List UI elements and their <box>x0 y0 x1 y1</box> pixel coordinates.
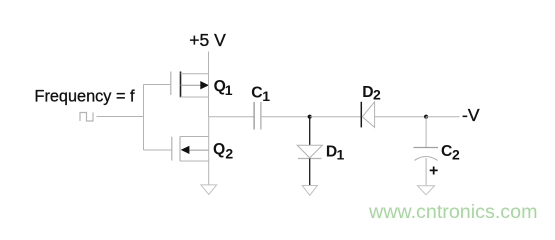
ground below Q2 <box>201 185 217 195</box>
label C1 <box>251 84 270 104</box>
wire node A down to D1 <box>309 117 311 146</box>
transistor Q2 <box>172 137 209 162</box>
label C2 <box>441 143 460 163</box>
svg-text:-V: -V <box>462 105 480 125</box>
label D1 <box>326 144 345 163</box>
label D2 <box>362 84 381 103</box>
wire Q2 vertical to ground <box>208 117 210 185</box>
svg-text:1: 1 <box>262 88 270 104</box>
svg-text:Frequency = f: Frequency = f <box>35 87 135 105</box>
transistor Q1 <box>171 72 209 98</box>
svg-text:www.cntronics.com: www.cntronics.com <box>368 201 537 223</box>
svg-text:1: 1 <box>337 147 345 163</box>
label Q2 <box>213 141 233 161</box>
label Q1 <box>214 78 233 98</box>
wire Q1 drain-source vertical <box>208 74 210 117</box>
wire +5V stub <box>208 52 210 74</box>
wire node B to -V <box>426 116 459 118</box>
node B junction dot <box>424 115 428 119</box>
wire gate bus <box>143 85 145 151</box>
svg-text:2: 2 <box>373 87 381 103</box>
wire D1 to ground <box>309 159 311 186</box>
svg-text:D: D <box>362 84 373 101</box>
svg-text:C: C <box>251 84 262 101</box>
ground below C2 <box>418 186 435 195</box>
diode D1 <box>297 145 322 158</box>
svg-text:+: + <box>429 162 438 179</box>
pulse waveform symbol <box>80 113 93 122</box>
wire node B down to C2 <box>425 117 427 148</box>
capacitor C1 <box>254 102 261 130</box>
ground below D1 <box>302 186 317 196</box>
diode D2 <box>361 102 374 128</box>
wire input <box>97 116 144 118</box>
wire Q2 gate <box>144 149 172 151</box>
wire Q1 gate <box>144 84 171 86</box>
wire D2 to node B <box>375 116 427 118</box>
node A junction dot <box>308 115 312 119</box>
capacitor C2 <box>414 148 439 161</box>
svg-text:C: C <box>441 143 452 160</box>
wire output rail to C1 <box>209 116 254 118</box>
svg-text:2: 2 <box>452 147 460 163</box>
svg-text:2: 2 <box>225 146 233 162</box>
svg-text:+5 V: +5 V <box>189 30 226 50</box>
wire node A to D2 <box>310 116 362 118</box>
svg-text:Q: Q <box>213 141 225 158</box>
svg-text:1: 1 <box>225 82 233 98</box>
wire C2 to ground <box>425 158 427 185</box>
wire C1 to node A <box>261 116 310 118</box>
